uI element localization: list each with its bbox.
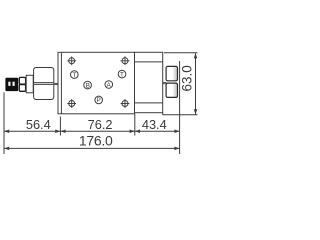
extension line plate left (56.4 / 76.2 boundary) [59, 117, 61, 136]
dimension line 43.4 [135, 130, 180, 134]
extension line left end (176.0 / 56.4) [3, 92, 5, 154]
mounting hole top-right [121, 56, 130, 65]
right end cap edge / extension line [179, 61, 181, 154]
mounting hole bottom-left [67, 99, 76, 108]
port P [95, 96, 103, 104]
hex plug upper facet [166, 66, 177, 80]
mounting hole bottom-right [121, 99, 130, 108]
adjustment knob (black knurled) [5, 78, 18, 91]
extension line top right (63.0 top) [164, 52, 198, 54]
svg-text:56.4: 56.4 [26, 117, 51, 132]
right end block [135, 52, 163, 112]
hex plug neck [163, 82, 167, 83]
mounting hole top-left [67, 56, 76, 65]
dimension line 76.2 [60, 130, 134, 134]
valve main body plate [58, 52, 135, 114]
svg-text:P: P [96, 97, 100, 104]
right block lower facet line [135, 102, 163, 104]
svg-text:B: B [86, 83, 90, 90]
port T right [118, 70, 126, 78]
left flange inner line [60, 52, 62, 114]
dimension line 63.0 [194, 53, 198, 114]
extension line plate right (76.2 / 43.4 boundary) [134, 114, 136, 136]
extension line bottom right (63.0 bottom) [163, 114, 198, 116]
svg-text:63.0: 63.0 [179, 65, 194, 91]
hex body of adjustment cartridge [34, 68, 54, 100]
block corner tick [162, 113, 164, 115]
svg-text:176.0: 176.0 [79, 132, 113, 148]
right block upper facet line [135, 61, 163, 63]
svg-text:76.2: 76.2 [88, 117, 113, 132]
port B [84, 81, 92, 89]
hex plug lower facet [166, 83, 177, 97]
locknut double facet [19, 77, 25, 91]
dimension line 56.4 [4, 130, 60, 134]
collar sleeve [26, 75, 33, 93]
svg-text:T: T [72, 72, 76, 79]
svg-text:T: T [120, 71, 124, 78]
svg-text:43.4: 43.4 [142, 117, 167, 132]
svg-text:A: A [106, 82, 111, 89]
dimension line 176.0 [4, 147, 180, 151]
port A [105, 81, 113, 89]
port T left [71, 71, 79, 79]
cartridge neck to body [54, 83, 58, 84]
